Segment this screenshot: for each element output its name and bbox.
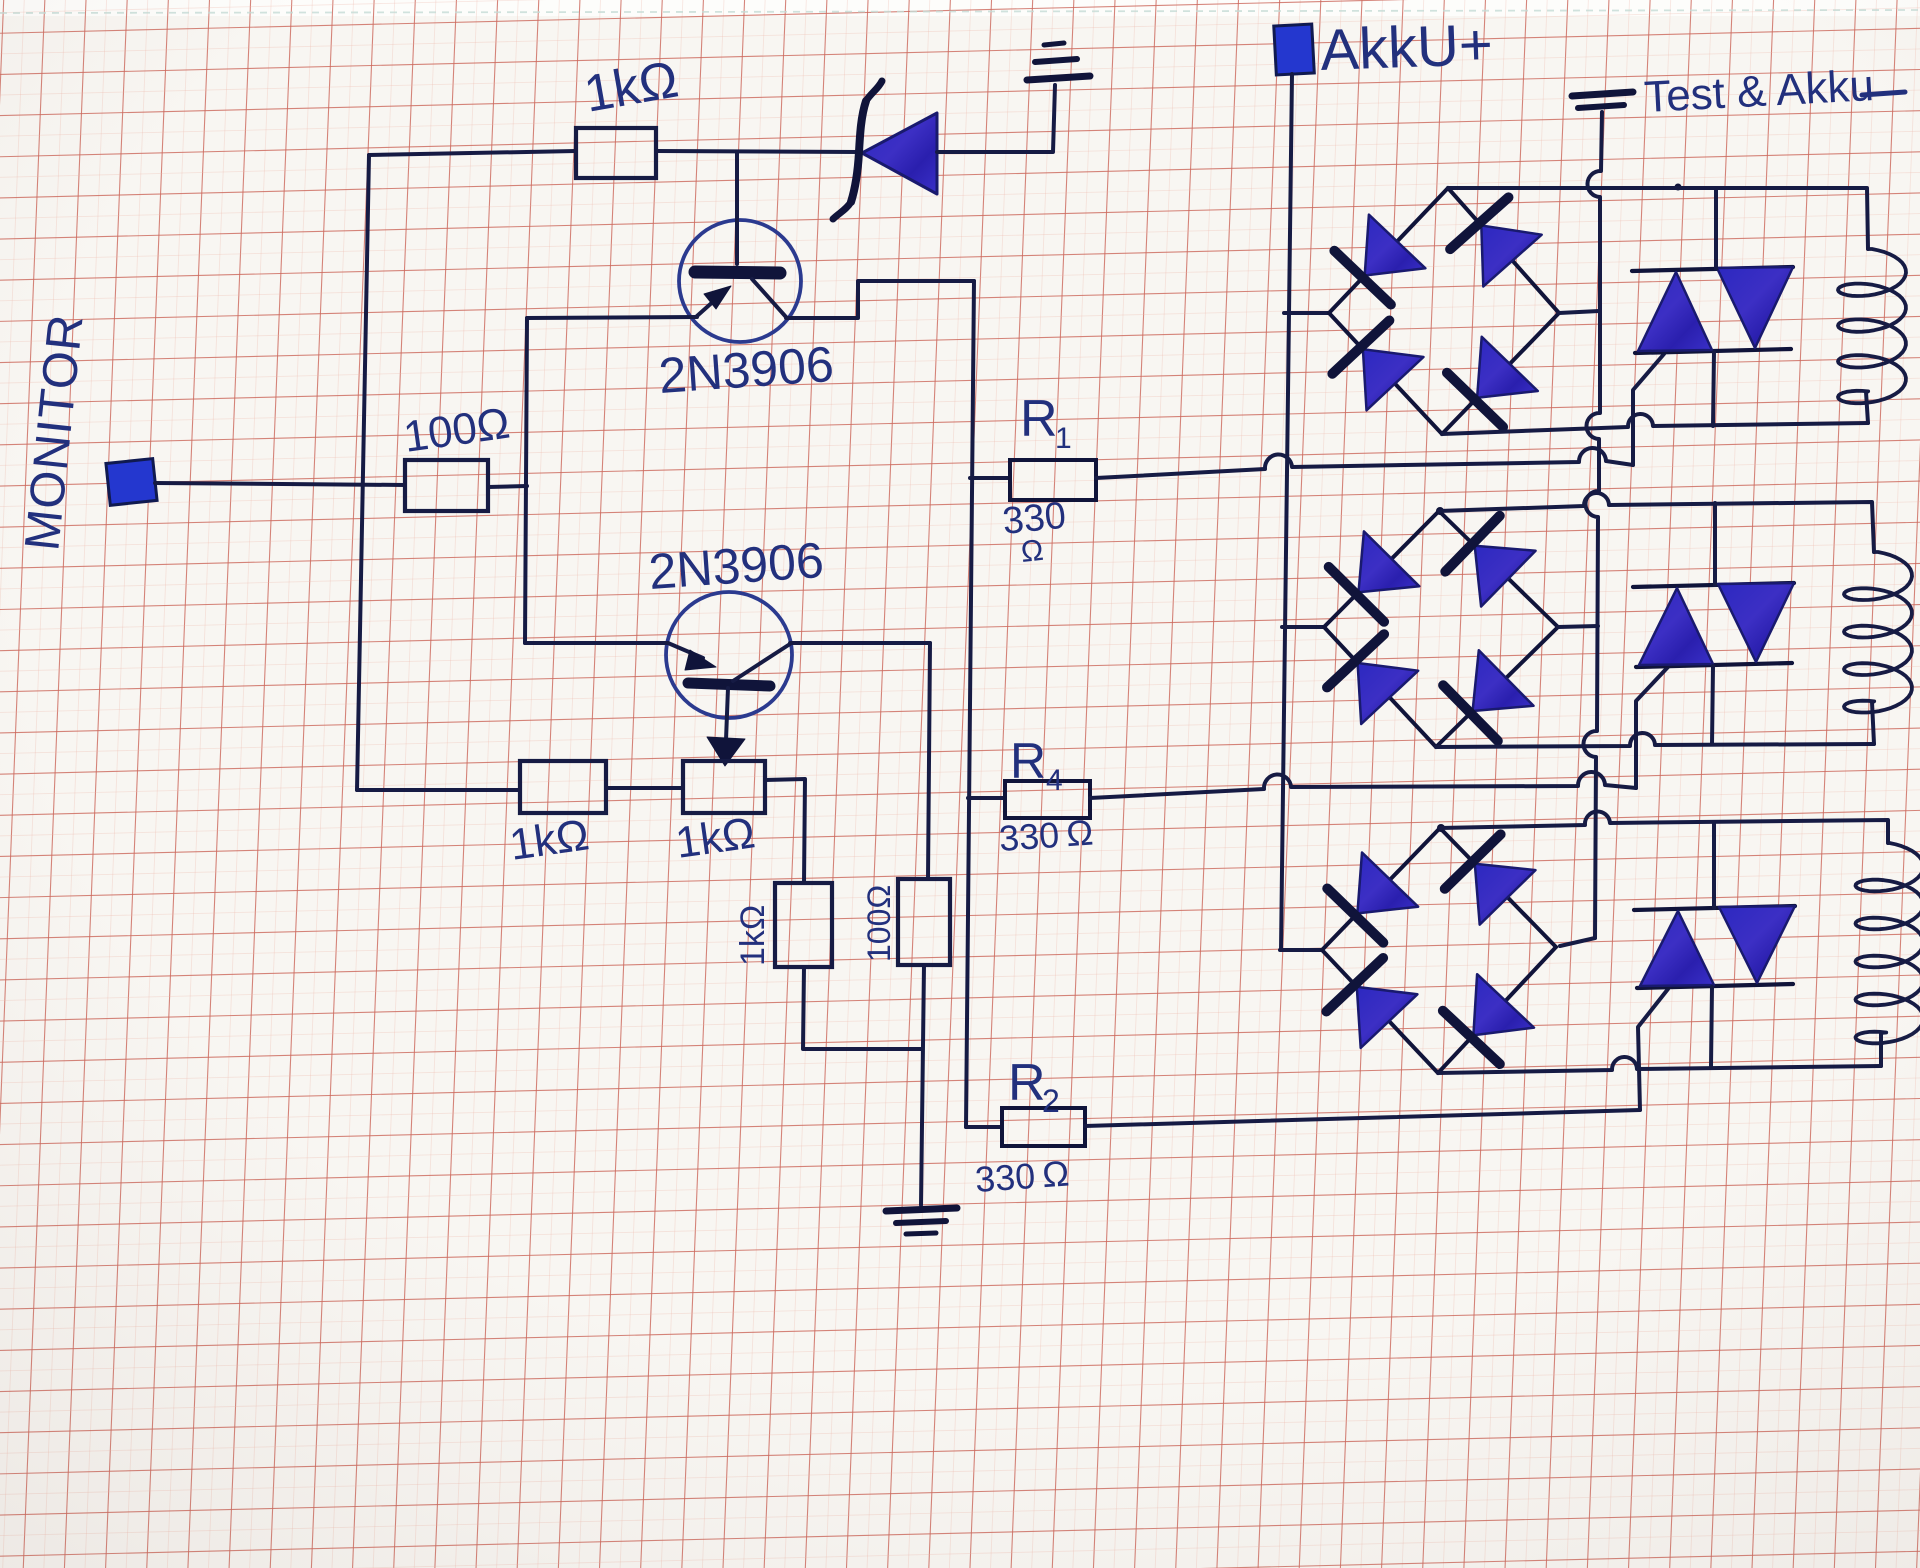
wire: 1k resistor to zener: [656, 151, 858, 152]
LED bridge bottom-left: [1357, 987, 1418, 1048]
wire: bridge diamond edges: [1324, 511, 1439, 627]
wire: Akku+ to bridge1 left vertex: [1284, 311, 1329, 315]
LED pair left (up): [1639, 588, 1713, 665]
LED bridge bottom-left: [1358, 663, 1419, 724]
wire: row right step down: [765, 779, 805, 883]
wire: R2 to LED block 3 (long): [1085, 1110, 1640, 1126]
wire: main riser x970 (collector to R2): [966, 281, 974, 1127]
inductor coil L3: [1856, 843, 1920, 1043]
wire: left riser (top rail to resistor row): [357, 155, 369, 790]
LED bridge top-right: [1475, 546, 1536, 607]
inductor coil L2: [1844, 552, 1912, 713]
wire: block1 bottom rail (hop over feed riser): [1442, 414, 1868, 434]
wire: Q1 emitter to column: [527, 317, 697, 318]
zener diode D1: [862, 113, 937, 194]
LED bridge top-right: [1481, 226, 1541, 287]
wire: block3 feed riser and diagonal: [1638, 989, 1668, 1110]
LED bridge top-left: [1359, 531, 1420, 592]
wire: pair top vertical: [1714, 188, 1718, 269]
wire: Q1 collector step to riser: [786, 281, 974, 318]
wire: bridge2 right vertex to Test line: [1558, 626, 1598, 627]
Q1 emitter (arrow into base): [697, 291, 725, 316]
inductor coil L1: [1838, 249, 1906, 403]
ground (Test & Akku-): [1572, 92, 1633, 96]
wire: R1 to LED block 1 (hops over Akku+ and Test lines): [1096, 448, 1633, 478]
wire: pair top vertical: [1712, 822, 1716, 908]
wire: pair top rail: [1633, 583, 1794, 587]
transistor Q1 2N3906: [679, 220, 801, 342]
Q2 emitter (arrow into base): [668, 643, 703, 658]
resistor 1k (top): [576, 128, 656, 178]
wire: coil2 bottom to rail: [1872, 702, 1874, 744]
wire: pair bottom vertical: [1711, 987, 1712, 1066]
wire: Test line down (hops rails): [1583, 112, 1602, 938]
wire: pair bottom vertical: [1712, 666, 1713, 744]
transistor Q2 2N3906: [666, 592, 792, 718]
wire: pair top rail: [1634, 906, 1795, 910]
wire: Akku+ line down: [1281, 74, 1292, 950]
Q2 base bar: [688, 683, 770, 686]
resistor 1k (vertical): [775, 883, 832, 967]
Q1 base bar: [695, 272, 780, 273]
wire: block2 feed riser and diagonal: [1636, 667, 1668, 788]
LED bridge bottom-right: [1473, 974, 1534, 1035]
resistor R4 330R: [968, 796, 1005, 800]
wire: bridge diamond edges: [1322, 828, 1440, 950]
LED pair right (down): [1717, 267, 1793, 348]
wire: resistor row from left riser: [357, 788, 520, 792]
wire: Akku+ to bridge2 left vertex: [1282, 625, 1324, 629]
resistor 1k (row left): [520, 761, 606, 813]
wire: Q1 base lead: [735, 152, 739, 264]
wire: Q2 emitter from column: [525, 641, 668, 645]
wire: block1 feed riser and diagonal to pair rail: [1633, 354, 1664, 465]
resistor 100R (vertical): [898, 879, 950, 965]
LED bridge top-left: [1357, 853, 1418, 914]
Q1 collector: [752, 279, 786, 317]
wire: monitor pad to 100R resistor: [155, 483, 405, 485]
wire: Q2 collector drop to 100R vertical: [928, 643, 930, 879]
wire: zener to ground riser: [937, 85, 1055, 152]
wire: emitter column x527: [525, 318, 527, 643]
resistor R2 330R: [966, 1125, 1002, 1129]
wire: bridge diamond edges: [1329, 188, 1448, 313]
wire: pair bottom rail: [1636, 663, 1792, 667]
wire: Akku+ to bridge3 left vertex: [1280, 948, 1322, 952]
node Akku+ pad: [1274, 24, 1315, 75]
wire: top rail to 1k resistor: [369, 151, 576, 155]
wire: coil1 bottom to rail: [1866, 392, 1868, 423]
wire: pair bottom rail: [1635, 349, 1791, 353]
wire: block2 bottom rail (hop): [1436, 733, 1874, 747]
wire: pair top vertical: [1713, 503, 1717, 585]
wire: coil3 bottom to rail: [1879, 1033, 1883, 1066]
wire: 100R vertical bottom to ground: [921, 965, 924, 1205]
top page edge line: [0, 10, 1920, 13]
wire: pair top rail: [1632, 267, 1793, 271]
LED bridge bottom-right: [1477, 337, 1538, 398]
wire: bridge1 right vertex to Test line: [1559, 311, 1599, 313]
resistor 100R (monitor): [405, 460, 488, 511]
wire: pair bottom vertical: [1713, 352, 1714, 426]
wire: block3 bottom rail (hop): [1438, 1057, 1881, 1073]
wire: pair bottom rail: [1637, 984, 1793, 988]
node MONITOR pad: [106, 459, 157, 506]
LED bridge bottom-left: [1363, 349, 1424, 410]
ground (top right of zener, inverted): [1027, 76, 1090, 80]
wire: Q2 collector right: [790, 641, 930, 645]
wire: R4 to LED block 2 (hops): [1090, 772, 1636, 798]
Q2 collector: [733, 644, 790, 681]
wire: block1 top rail: [1448, 188, 1868, 249]
wire: block2 top rail (hop over Test): [1439, 493, 1874, 552]
junction dot top rail 1: [1675, 184, 1682, 191]
wire: 100R to emitter column: [488, 486, 527, 487]
ground (bottom): [886, 1208, 957, 1211]
wire: Q2 base lead down: [726, 688, 728, 740]
wire: row between resistors: [606, 786, 683, 790]
LED pair right (down): [1719, 906, 1795, 983]
LED bridge top-right: [1475, 864, 1536, 925]
LED pair left (up): [1638, 272, 1712, 351]
wire: Test line to bridge3 right vertex: [1560, 938, 1595, 946]
wire: block3 top rail (hop over Test): [1440, 811, 1888, 843]
LED bridge bottom-right: [1473, 650, 1534, 711]
Q2 base arrow onto potentiometer: [707, 737, 745, 766]
LED pair left (up): [1640, 911, 1714, 986]
resistor 1k (potentiometer): [683, 761, 765, 813]
wire: 1k vertical bottom to 100R bottom: [803, 967, 921, 1049]
LED bridge top-left: [1365, 215, 1426, 276]
LED pair right (down): [1718, 583, 1794, 662]
resistor R1 330R: [970, 476, 1010, 480]
